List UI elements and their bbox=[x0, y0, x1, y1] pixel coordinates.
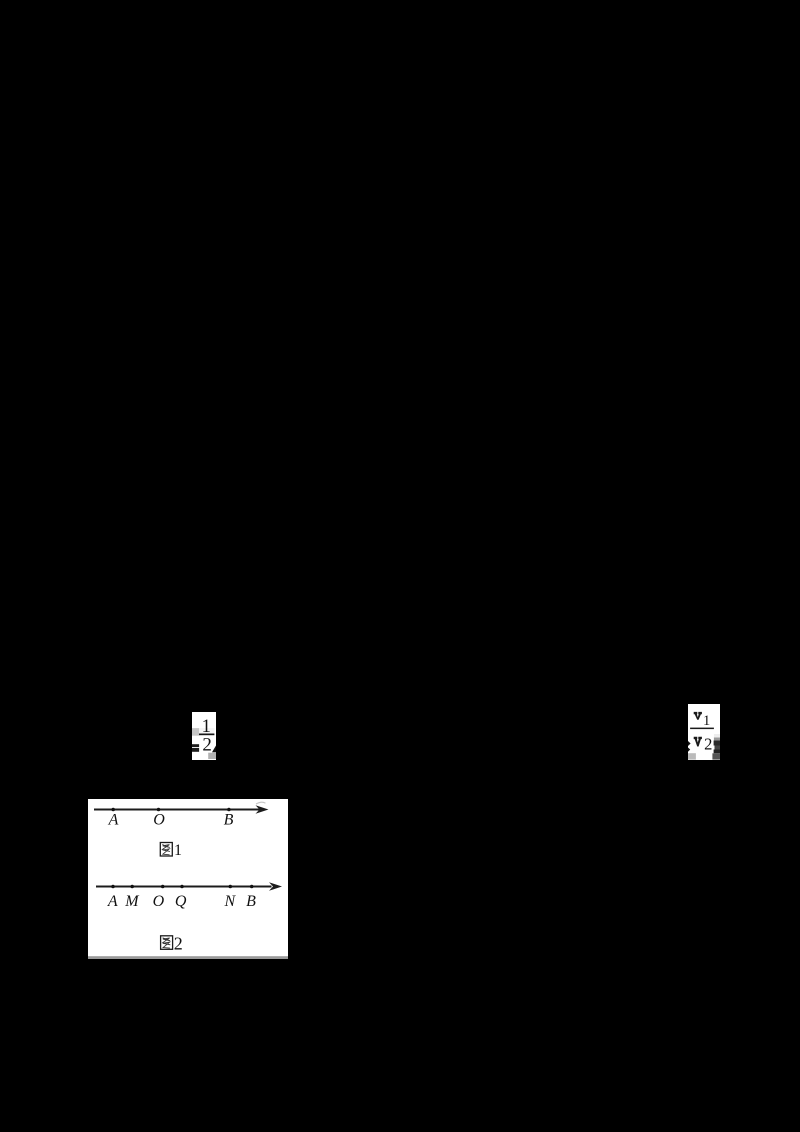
svg-text:B: B bbox=[224, 811, 234, 828]
svg-text:Q: Q bbox=[175, 893, 187, 910]
svg-text:A: A bbox=[107, 893, 118, 910]
svg-text:N: N bbox=[223, 893, 236, 910]
svg-text:1: 1 bbox=[703, 713, 710, 729]
svg-text:O: O bbox=[153, 811, 165, 828]
svg-text:O: O bbox=[153, 893, 165, 910]
svg-text:2: 2 bbox=[704, 735, 712, 754]
svg-text:1: 1 bbox=[174, 842, 182, 859]
svg-text:A: A bbox=[108, 811, 119, 828]
svg-text:2: 2 bbox=[174, 933, 183, 953]
svg-text:M: M bbox=[124, 893, 140, 910]
svg-text:B: B bbox=[246, 893, 256, 910]
svg-text:2: 2 bbox=[202, 735, 212, 756]
